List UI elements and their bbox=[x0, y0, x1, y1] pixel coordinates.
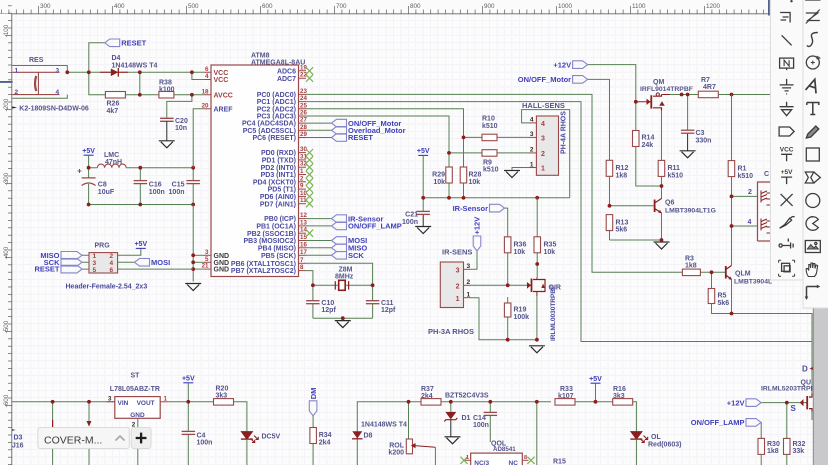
svg-text:2: 2 bbox=[467, 279, 471, 286]
svg-text:5k6: 5k6 bbox=[616, 227, 628, 234]
net flag ON/OFF_Motor bbox=[573, 76, 588, 84]
net flag RESET at PC6 bbox=[332, 134, 347, 142]
svg-text:R14: R14 bbox=[642, 135, 655, 142]
svg-text:R1: R1 bbox=[738, 166, 747, 173]
toolbar icon pencil bbox=[806, 126, 819, 138]
svg-text:IR-SENS: IR-SENS bbox=[442, 248, 472, 257]
svg-text:DC5V: DC5V bbox=[262, 434, 281, 441]
svg-text:R12: R12 bbox=[616, 165, 629, 172]
svg-text:R20: R20 bbox=[216, 386, 229, 393]
svg-text:8MHz: 8MHz bbox=[335, 274, 354, 281]
wire R9 row to HALL-SENS pin2 bbox=[449, 152, 529, 154]
svg-text:C3: C3 bbox=[696, 130, 705, 137]
junctions in IR sensor block bbox=[506, 283, 510, 287]
svg-text:PC4 (ADC4SDA): PC4 (ADC4SDA) bbox=[242, 121, 296, 128]
wire R33 to R16 bbox=[575, 401, 613, 403]
svg-text:COVER-M...: COVER-M... bbox=[44, 434, 102, 446]
svg-text:-100: -100 bbox=[3, 24, 10, 37]
svg-text:3: 3 bbox=[456, 268, 460, 275]
svg-text:10k: 10k bbox=[544, 249, 556, 256]
diode D4 bbox=[111, 69, 119, 77]
wire PB0 stub bbox=[306, 218, 332, 220]
svg-text:2k4: 2k4 bbox=[421, 393, 433, 400]
capacitor C16 leads bbox=[139, 168, 141, 181]
junctions on VCC and AVCC nets bbox=[65, 70, 69, 74]
svg-text:SCK: SCK bbox=[348, 251, 364, 260]
toolbar icon bezier bbox=[807, 33, 818, 47]
capacitor C8 polarized bbox=[88, 168, 90, 178]
svg-text:1: 1 bbox=[456, 296, 460, 303]
wire DM flag to R34 bbox=[312, 416, 314, 428]
toolbar icon protective ground bbox=[780, 102, 794, 116]
svg-text:QLM: QLM bbox=[735, 271, 751, 278]
resistor R37 bbox=[421, 399, 441, 406]
svg-text:GND: GND bbox=[214, 267, 230, 274]
net flag MOSI at PB3 bbox=[332, 237, 347, 245]
wire PB7 to crystal left bbox=[306, 271, 313, 286]
wire D3 branch down bbox=[52, 402, 54, 427]
resistor R28 bbox=[460, 167, 467, 183]
transistor QLM npn bbox=[725, 266, 727, 279]
svg-text:4: 4 bbox=[205, 73, 209, 80]
resistor R14 leads bbox=[635, 102, 637, 131]
resistor R34 bbox=[310, 428, 317, 444]
svg-text:3: 3 bbox=[530, 131, 534, 138]
net flag ON/OFF_Motor at PC4 bbox=[332, 119, 347, 127]
svg-text:PD7 (AIN1): PD7 (AIN1) bbox=[260, 201, 296, 208]
wire R34 down bbox=[312, 444, 314, 465]
wire IR-SENS pin3 to +12V flag bbox=[471, 251, 478, 269]
toolbar icon net label bbox=[780, 58, 794, 70]
svg-text:400: 400 bbox=[114, 3, 125, 10]
net flag ON/OFF_LAMP at PB1 bbox=[332, 222, 347, 230]
wire PRG pin1 stub bbox=[82, 254, 89, 256]
wire capacitor bottom bus bbox=[89, 204, 194, 206]
svg-text:PD0 (RXD): PD0 (RXD) bbox=[261, 150, 296, 157]
wire C5 branch down bbox=[88, 402, 90, 421]
crystal Z8M bbox=[339, 280, 346, 290]
wire R16 to LED OL bbox=[633, 402, 637, 432]
ground under crystal caps bbox=[335, 320, 351, 322]
resistor R28 leads bbox=[463, 137, 465, 167]
resistor R11 bbox=[658, 160, 665, 176]
resistor R29 bbox=[446, 167, 453, 183]
toolbar icon origin axes bbox=[805, 285, 821, 300]
svg-text:R19: R19 bbox=[514, 307, 527, 314]
svg-text:PH-3A RHOS: PH-3A RHOS bbox=[428, 327, 474, 336]
resistor R32 bbox=[784, 438, 791, 454]
ground under GND rail bbox=[185, 283, 201, 285]
svg-text:1: 1 bbox=[164, 395, 168, 402]
net flag MISO at PB4 bbox=[332, 244, 347, 252]
svg-text:R28: R28 bbox=[469, 172, 482, 179]
svg-text:-500: -500 bbox=[3, 320, 10, 333]
net flag +12V bbox=[573, 61, 588, 69]
svg-text:1N4148WS T4: 1N4148WS T4 bbox=[361, 422, 407, 429]
svg-text:100n: 100n bbox=[473, 422, 489, 429]
regulator pin stubs and numbers bbox=[106, 401, 114, 403]
svg-text:K2-1809SN-D4DW-06: K2-1809SN-D4DW-06 bbox=[19, 106, 89, 113]
wire regulator GND down bbox=[137, 418, 139, 465]
svg-text:24k: 24k bbox=[642, 142, 654, 149]
svg-text:100n: 100n bbox=[402, 219, 418, 226]
wire R10 row to HALL-SENS pin3 bbox=[464, 136, 530, 138]
QOL right pin stub with no-connect bbox=[522, 459, 528, 461]
svg-text:ROL: ROL bbox=[389, 443, 405, 450]
wire R32 down bbox=[786, 454, 788, 465]
junctions on +5V filter nets bbox=[87, 166, 91, 170]
label K2-1809SN-D4DW-06 bbox=[10, 106, 18, 109]
wire PRG pin2 to +5V bbox=[118, 248, 141, 255]
capacitor C4 branch bbox=[187, 402, 189, 432]
wire GND pin stubs bbox=[193, 254, 203, 256]
svg-text:700: 700 bbox=[336, 3, 347, 10]
wire LED DC5V cathode down bbox=[246, 439, 248, 465]
svg-text:MOSI: MOSI bbox=[151, 258, 170, 267]
svg-text:AREF: AREF bbox=[214, 106, 234, 113]
svg-text:BZT52C4V3S: BZT52C4V3S bbox=[445, 392, 489, 399]
connector PRG header bbox=[89, 253, 118, 273]
svg-text:+12V: +12V bbox=[727, 398, 745, 407]
svg-text:3k3: 3k3 bbox=[216, 393, 228, 400]
wire QLM emitter to lamp drain rail bbox=[732, 280, 813, 394]
svg-text:VCC: VCC bbox=[780, 146, 794, 153]
wire AVCC segment R26 to MCU bbox=[125, 94, 203, 96]
net flag MOSI bbox=[135, 259, 150, 267]
svg-text:10uF: 10uF bbox=[98, 189, 115, 196]
wire PB6 to crystal right bbox=[306, 263, 373, 285]
svg-text:k510: k510 bbox=[483, 167, 499, 174]
wire ON/OFF_LAMP flag to R30 bbox=[760, 422, 762, 439]
net flag DM vertical bbox=[309, 401, 317, 416]
svg-text:Z8M: Z8M bbox=[339, 266, 353, 273]
svg-text:+5V: +5V bbox=[417, 148, 430, 155]
resistor R13 bbox=[606, 215, 613, 231]
wire PRG pin6 to GND rail bbox=[118, 268, 194, 270]
svg-text:2: 2 bbox=[541, 151, 545, 158]
svg-text:2: 2 bbox=[530, 147, 534, 154]
svg-text:10n: 10n bbox=[175, 125, 187, 132]
svg-text:5k6: 5k6 bbox=[718, 300, 730, 307]
svg-text:PB2 (SSOC1B): PB2 (SSOC1B) bbox=[247, 231, 296, 238]
capacitor C4 bbox=[182, 430, 196, 432]
svg-text:47nH: 47nH bbox=[105, 159, 122, 166]
resistor R13 leads bbox=[609, 230, 611, 240]
wire R30 down bbox=[760, 454, 762, 465]
svg-text:12pf: 12pf bbox=[381, 307, 396, 314]
toolbar panel wiring tools bbox=[771, 0, 804, 280]
svg-text:600: 600 bbox=[262, 3, 273, 10]
toolbar icon arc center bbox=[806, 56, 820, 69]
capacitor C21 leads bbox=[422, 198, 424, 212]
svg-text:LMBT3904L: LMBT3904L bbox=[734, 278, 772, 285]
wire motor connector pin4 row bbox=[732, 225, 758, 227]
wire ROL branch bbox=[408, 402, 410, 439]
resistor R10 bbox=[482, 134, 497, 141]
svg-text:+5V: +5V bbox=[589, 376, 602, 383]
svg-text:VOUT: VOUT bbox=[137, 400, 155, 407]
svg-text:PC3 (ADC3): PC3 (ADC3) bbox=[257, 114, 296, 121]
svg-text:R33: R33 bbox=[560, 386, 573, 393]
toolbar icon probe bbox=[780, 216, 795, 228]
svg-text:1100: 1100 bbox=[632, 3, 646, 10]
svg-text:k510: k510 bbox=[668, 172, 684, 179]
svg-text:VIN: VIN bbox=[118, 400, 129, 407]
svg-text:PC2 (ADC2): PC2 (ADC2) bbox=[257, 106, 296, 113]
svg-text:R29: R29 bbox=[432, 172, 445, 179]
resistor R36 leads bbox=[507, 253, 509, 285]
label D3 MAJ164 partially hidden bbox=[10, 429, 16, 432]
svg-text:PD3 (INT1): PD3 (INT1) bbox=[261, 172, 296, 179]
diode D5 arrow above tab bbox=[87, 421, 92, 427]
svg-text:IRLML5203TRPE: IRLML5203TRPE bbox=[761, 386, 815, 393]
wire QM source row to R7 bbox=[670, 94, 698, 96]
resistor R19 leads bbox=[507, 297, 509, 340]
svg-text:3: 3 bbox=[467, 263, 471, 270]
capacitor C3 leads bbox=[687, 95, 689, 131]
wire +12V flag to QU gate bbox=[761, 402, 806, 404]
svg-text:D: D bbox=[802, 365, 808, 374]
resistor R12 bbox=[606, 160, 613, 176]
junctions on +5V rail at regulator bbox=[51, 400, 55, 404]
wire D4 cathode to R26 net vertical bbox=[139, 72, 141, 95]
net flag MISO bbox=[61, 252, 82, 260]
svg-text:ADC6: ADC6 bbox=[277, 68, 296, 75]
svg-text:PB4 (MISO): PB4 (MISO) bbox=[258, 245, 296, 252]
svg-text:D8: D8 bbox=[364, 433, 373, 440]
svg-text:R9: R9 bbox=[483, 159, 492, 166]
wire RES pin4 bottom lead bbox=[12, 95, 67, 99]
svg-text:1k8: 1k8 bbox=[685, 263, 697, 270]
svg-text:RESET: RESET bbox=[121, 39, 146, 48]
svg-text:RESET: RESET bbox=[348, 133, 373, 142]
wire +5V rail segment with D8 branch bbox=[357, 402, 421, 465]
svg-text:VCC: VCC bbox=[214, 77, 229, 84]
svg-text:IR-Sensor: IR-Sensor bbox=[453, 204, 489, 213]
svg-text:1200: 1200 bbox=[706, 3, 721, 10]
svg-text:10k: 10k bbox=[514, 249, 526, 256]
wire PB4 stub bbox=[306, 247, 332, 249]
svg-text:2: 2 bbox=[15, 89, 19, 96]
capacitor C15 bbox=[186, 180, 200, 182]
wire +12V flag to QM gate node bbox=[588, 65, 636, 102]
svg-text:PD1 (TXD): PD1 (TXD) bbox=[262, 158, 296, 165]
svg-text:4R7: 4R7 bbox=[703, 84, 716, 91]
svg-text:AD8541: AD8541 bbox=[493, 446, 516, 453]
svg-text:PC1 (ADC1): PC1 (ADC1) bbox=[257, 99, 296, 106]
svg-text:k200: k200 bbox=[388, 450, 404, 457]
svg-text:C8: C8 bbox=[98, 182, 107, 189]
resistor R16 bbox=[613, 399, 633, 406]
capacitor C20 bbox=[160, 117, 174, 119]
wire AREF branch down bbox=[193, 109, 203, 168]
wire +5V stem to sensor bus bbox=[422, 155, 424, 197]
toolbar icon drag hand bbox=[806, 263, 817, 277]
svg-text:PC5 (ADC5SCL): PC5 (ADC5SCL) bbox=[243, 128, 296, 135]
svg-text:C20: C20 bbox=[175, 118, 188, 125]
svg-text:PD2 (INT0): PD2 (INT0) bbox=[261, 165, 296, 172]
svg-text:R36: R36 bbox=[514, 242, 527, 249]
svg-text:12: 12 bbox=[300, 212, 307, 219]
wire +5V rail VOUT to R20 bbox=[169, 401, 213, 403]
svg-text:R16: R16 bbox=[613, 386, 626, 393]
svg-text:R5: R5 bbox=[718, 293, 727, 300]
svg-text:5: 5 bbox=[93, 267, 97, 274]
svg-text:-600: -600 bbox=[3, 394, 10, 407]
resistor R14 bbox=[633, 131, 640, 147]
junctions in QM driver section bbox=[634, 100, 638, 104]
svg-text:R10: R10 bbox=[482, 116, 495, 123]
svg-text:PB5 (SCK): PB5 (SCK) bbox=[261, 253, 296, 260]
svg-text:2: 2 bbox=[300, 175, 304, 182]
toolbar icon ground bbox=[780, 79, 794, 94]
svg-text:4: 4 bbox=[56, 89, 60, 96]
ruler cursor marker y bbox=[0, 81, 13, 83]
svg-text:+5V: +5V bbox=[134, 241, 147, 248]
capacitor C14 leads bbox=[489, 402, 491, 413]
ground under C3 bbox=[680, 150, 696, 152]
svg-text:C15: C15 bbox=[172, 182, 185, 189]
transistor QIR n-mosfet bbox=[527, 284, 531, 286]
svg-text:IRLML0030TRPBF: IRLML0030TRPBF bbox=[550, 285, 557, 341]
resistor R29 leads bbox=[448, 153, 450, 167]
wire Q6 emitter to ground bbox=[610, 213, 662, 240]
svg-text:+12V: +12V bbox=[473, 217, 482, 235]
wire PC2 net to R10 R28 bbox=[306, 109, 464, 138]
net flag SCK at PB5 bbox=[332, 252, 347, 260]
svg-text:+12V: +12V bbox=[553, 60, 571, 69]
top ruler bbox=[0, 0, 828, 14]
svg-text:25: 25 bbox=[300, 102, 307, 109]
svg-text:R37: R37 bbox=[421, 386, 434, 393]
svg-text:900: 900 bbox=[484, 3, 495, 10]
wire PC1 net long horizontal bbox=[306, 102, 812, 342]
svg-text:23: 23 bbox=[300, 88, 307, 95]
svg-text:R35: R35 bbox=[544, 242, 557, 249]
toolbar icon wire bbox=[780, 13, 790, 23]
wire HALL-SENS pin4 wrap to bus bbox=[522, 110, 570, 198]
toolbar icon pin bbox=[779, 239, 793, 249]
svg-text:ON/OFF_LAMP: ON/OFF_LAMP bbox=[691, 418, 745, 427]
svg-text:PD4 (XCKT0): PD4 (XCKT0) bbox=[253, 179, 296, 186]
wire R32 branch from +12V gate net bbox=[786, 403, 788, 439]
svg-text:4k7: 4k7 bbox=[107, 108, 119, 115]
svg-text:C21: C21 bbox=[405, 212, 418, 219]
wire QIR source down to ground bus bbox=[536, 296, 538, 340]
svg-text:3: 3 bbox=[56, 68, 60, 75]
resistor R36 bbox=[504, 237, 511, 253]
svg-text:8: 8 bbox=[524, 455, 527, 461]
resistor R33 bbox=[555, 399, 575, 406]
svg-text:R32: R32 bbox=[793, 441, 806, 448]
wire VCC pin4 branch bbox=[192, 72, 204, 79]
connector IR-SENS body bbox=[440, 262, 463, 308]
svg-text:300: 300 bbox=[40, 3, 51, 10]
toolbar icon arrow text bbox=[806, 78, 820, 94]
junction at QU gate bbox=[785, 401, 789, 405]
connector CM motor body clipped bbox=[758, 182, 771, 241]
svg-text:D1: D1 bbox=[462, 415, 471, 422]
resistor R30 bbox=[758, 438, 765, 454]
svg-text:C4: C4 bbox=[197, 433, 206, 440]
svg-text:VCC: VCC bbox=[214, 70, 229, 77]
IR-SENS pin stubs and numbers bbox=[464, 268, 471, 270]
net flag RESET bbox=[105, 39, 120, 47]
svg-text:-400: -400 bbox=[3, 246, 10, 259]
svg-text:33k: 33k bbox=[793, 448, 805, 455]
svg-text:1: 1 bbox=[93, 253, 97, 260]
svg-text:IRFL9014TRPBF: IRFL9014TRPBF bbox=[640, 86, 693, 93]
wire crystal caps ground bus bbox=[313, 317, 373, 319]
net flag ON/OFF_LAMP bbox=[746, 419, 761, 427]
svg-text:L78L05ABZ-TR: L78L05ABZ-TR bbox=[110, 386, 160, 393]
svg-text:4: 4 bbox=[530, 117, 534, 124]
svg-text:330n: 330n bbox=[696, 137, 712, 144]
toolbar icon vcc flag bbox=[780, 146, 794, 161]
capacitor C15 leads bbox=[192, 168, 194, 181]
capacitor C3 bbox=[681, 129, 695, 131]
svg-text:k100: k100 bbox=[159, 87, 175, 94]
svg-text:1000: 1000 bbox=[558, 3, 573, 10]
no-connect marks on unused MCU pins bbox=[306, 67, 313, 74]
svg-text:2k4: 2k4 bbox=[319, 439, 331, 446]
svg-text:15: 15 bbox=[300, 234, 307, 241]
svg-text:k510: k510 bbox=[482, 123, 498, 130]
resistor R3 bbox=[682, 269, 700, 276]
svg-text:2: 2 bbox=[748, 189, 752, 196]
resistor R5 leads bbox=[711, 272, 713, 288]
capacitor C16 bbox=[134, 180, 148, 182]
capacitor C21 bbox=[416, 210, 430, 212]
svg-text:100k: 100k bbox=[514, 314, 530, 321]
svg-text:21: 21 bbox=[202, 263, 209, 270]
wire QU source down bbox=[811, 412, 813, 421]
svg-text:k510: k510 bbox=[738, 173, 754, 180]
junctions at crystal bbox=[311, 283, 315, 287]
wire ON/OFF_Motor flag to R12 bbox=[588, 79, 610, 160]
left ruler bbox=[0, 14, 12, 465]
wire RESET net vertical bbox=[89, 43, 108, 95]
wire HALL-SENS pin1 to ground bbox=[512, 168, 529, 171]
toolbar icon no connect bbox=[781, 194, 793, 206]
resistor R35 bbox=[534, 237, 541, 253]
wire +5V stem to LMC node bbox=[88, 155, 90, 168]
svg-text:20: 20 bbox=[202, 102, 209, 109]
svg-text:R34: R34 bbox=[319, 432, 332, 439]
QOL left pin stub with no-connect bbox=[465, 459, 471, 461]
capacitor C14 bbox=[484, 411, 498, 413]
svg-text:C: C bbox=[764, 171, 769, 178]
wire ROL wiper down bbox=[434, 447, 436, 465]
toolbar icon text bbox=[807, 103, 819, 115]
svg-text:6: 6 bbox=[205, 66, 209, 73]
ground under D1 bbox=[445, 436, 461, 438]
ground under QIR bbox=[529, 345, 545, 347]
connector HALL-SENS body bbox=[536, 116, 558, 175]
right gray panel strip bbox=[813, 306, 828, 465]
wire GND rail down to ground bbox=[192, 205, 194, 282]
svg-text:ADC7: ADC7 bbox=[277, 76, 296, 83]
ground under Q6 bbox=[654, 241, 670, 243]
svg-text:R26: R26 bbox=[107, 101, 120, 108]
toolbar icon polygon bbox=[805, 172, 820, 183]
capacitor C10 leads bbox=[312, 285, 314, 300]
svg-text:C10: C10 bbox=[321, 300, 334, 307]
toolbar icon partial at top bbox=[790, 0, 792, 2]
diode D3 partially hidden bbox=[52, 420, 54, 427]
svg-text:PH-4A RHOS: PH-4A RHOS bbox=[561, 111, 568, 154]
svg-text:PRG: PRG bbox=[95, 242, 111, 249]
